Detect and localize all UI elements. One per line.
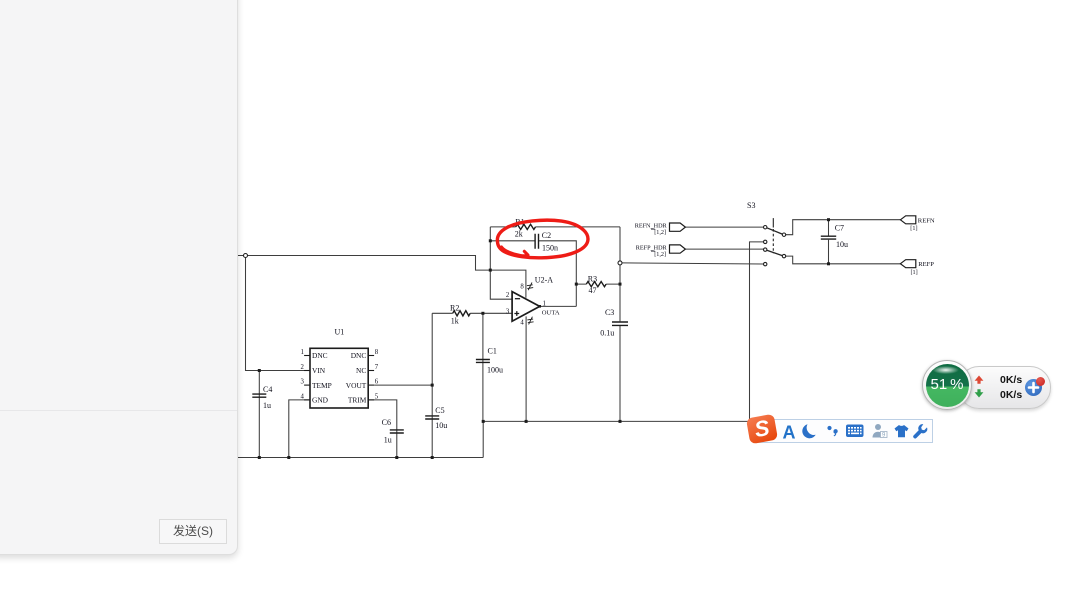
svg-text:NC: NC	[356, 366, 366, 375]
svg-text:TRIM: TRIM	[348, 396, 367, 405]
wire VOUT to node	[374, 384, 432, 386]
op-amp minus symbol	[515, 298, 520, 300]
down speed	[1000, 389, 1022, 401]
junction C3 mid rail	[619, 420, 622, 423]
wire C1 branch	[482, 313, 484, 421]
junction C6 rail	[395, 456, 398, 459]
svg-text:DNC: DNC	[312, 351, 328, 360]
wire bottom rail	[238, 457, 484, 459]
svg-text:C6: C6	[382, 418, 391, 427]
junction GND rail	[287, 456, 290, 459]
svg-text:10u: 10u	[435, 421, 447, 430]
red annotation kink	[502, 247, 529, 256]
svg-text:U2-A: U2-A	[535, 275, 553, 284]
junction C1 mid rail	[482, 420, 485, 423]
wire R2 leads	[432, 312, 483, 314]
svg-text:1: 1	[300, 349, 303, 356]
wire GND pin to bottom rail	[289, 400, 310, 458]
U1 pin3 stub	[304, 384, 310, 386]
resistor R1	[516, 224, 536, 229]
svg-text:47: 47	[589, 286, 597, 295]
svg-text:6: 6	[375, 379, 379, 386]
U1 pin7 stub	[368, 370, 374, 372]
junction VOUT node	[431, 384, 434, 387]
icon moon	[802, 424, 815, 438]
icon wrench	[913, 424, 927, 438]
junction R3 right node	[619, 283, 622, 286]
U1 pin4 stub	[304, 399, 310, 401]
svg-text:C4: C4	[263, 385, 272, 394]
junction opamp apex	[538, 305, 541, 308]
svg-text:1u: 1u	[384, 436, 392, 445]
green orb 51%	[922, 360, 972, 410]
up arrow	[974, 375, 984, 399]
icon person	[875, 424, 881, 430]
svg-text:C2: C2	[542, 231, 551, 240]
capacitor C6 plates	[390, 430, 404, 433]
wire switch B to REFN out	[786, 220, 901, 235]
op-amp U2-A triangle	[512, 292, 540, 322]
svg-text:4: 4	[520, 320, 524, 327]
U1 pin2 stub	[304, 370, 310, 372]
wire switch F to REFP out	[786, 256, 901, 264]
svg-text:GND: GND	[312, 396, 329, 405]
wire right vertical through C3	[619, 227, 621, 422]
icon shirt	[895, 425, 909, 437]
wire inverting feedback vertical	[490, 227, 512, 299]
wire REFP_HDR to switch	[685, 248, 763, 250]
wire switch throw C to mid rail	[750, 242, 764, 422]
connector flag REFP_HDR	[670, 245, 686, 253]
wire R2 vertical / C5 branch	[431, 313, 433, 457]
icon keyboard	[846, 425, 864, 438]
svg-text:OUTA: OUTA	[542, 309, 560, 316]
switch S3 top lever	[767, 228, 783, 234]
switch S3 throw F circle	[782, 254, 785, 257]
resistor R2	[453, 311, 471, 316]
op-amp pin4 power marker	[527, 317, 533, 325]
junction output node R3	[575, 283, 578, 286]
svg-text:DNC: DNC	[351, 351, 367, 360]
U1 pin1 stub	[304, 355, 310, 357]
speed widget pill	[958, 366, 1051, 409]
svg-text:C3: C3	[605, 308, 614, 317]
svg-text:3: 3	[506, 309, 510, 316]
plus cross	[1025, 379, 1042, 396]
capacitor C3 plates	[612, 322, 628, 325]
wire VIN drop	[246, 256, 311, 371]
wire mid rail	[483, 421, 749, 457]
svg-text:VIN: VIN	[312, 366, 326, 375]
capacitor C5 plates	[425, 416, 439, 419]
svg-text:10u: 10u	[836, 240, 848, 249]
svg-text:1: 1	[543, 300, 546, 307]
svg-text:2: 2	[300, 364, 304, 371]
svg-text:[1]: [1]	[911, 269, 918, 276]
sogou S logo	[745, 413, 777, 443]
send button	[159, 519, 227, 544]
svg-text:150n: 150n	[542, 244, 558, 253]
svg-text:U1: U1	[335, 328, 345, 337]
svg-text:2: 2	[506, 292, 510, 299]
svg-text:VOUT: VOUT	[346, 381, 367, 390]
svg-text:7: 7	[375, 364, 379, 371]
junction C2 left node	[489, 239, 492, 242]
up speed	[1000, 374, 1022, 386]
chat panel	[0, 0, 238, 555]
junction C5 rail	[431, 456, 434, 459]
svg-text:[1,2]: [1,2]	[654, 251, 666, 258]
wire REFN_HDR to switch	[685, 226, 763, 228]
switch S3 throw D circle	[764, 262, 767, 265]
panel divider	[0, 410, 237, 411]
svg-text:C7: C7	[835, 224, 844, 233]
svg-text:C1: C1	[488, 347, 497, 356]
svg-text:2k: 2k	[515, 229, 523, 238]
sogou toolbar	[753, 419, 933, 443]
junction C4 top	[258, 369, 261, 372]
wire node to switch throw D	[622, 263, 763, 264]
svg-text:4: 4	[300, 394, 304, 401]
wire C4 branch	[258, 371, 260, 458]
capacitor C1 plates	[476, 360, 490, 363]
U1 pin8 stub	[368, 355, 374, 357]
svg-text:REFN: REFN	[918, 217, 935, 224]
connector flag REFN_HDR	[670, 223, 686, 231]
wire TRIM to C6 to rail	[368, 400, 397, 458]
switch S3 dashed link	[772, 229, 774, 253]
svg-text:5: 5	[375, 394, 379, 401]
U1 pin5 stub	[368, 399, 374, 401]
red annotation ellipse around C2	[497, 220, 588, 258]
connector flag REFN	[900, 216, 915, 224]
svg-text:1k: 1k	[451, 316, 459, 325]
junction pin4 mid rail	[525, 420, 528, 423]
resistor R3	[586, 282, 606, 287]
junction C4 bottom	[258, 456, 261, 459]
overbar REFN_HDR [1,2]	[651, 229, 655, 251]
switch S3 throw B circle	[782, 233, 785, 236]
svg-text:TEMP: TEMP	[312, 381, 332, 390]
wire supply rail from panel to opamp pin8	[238, 256, 526, 298]
junction open circle REFP branch	[618, 261, 622, 265]
connector flag REFP	[900, 260, 915, 268]
red dot	[1036, 377, 1045, 386]
wire R1 top leads	[490, 226, 620, 228]
icon punctuation	[827, 426, 831, 430]
down arrow	[975, 389, 984, 397]
capacitor C2 plates	[535, 234, 538, 249]
switch S3 throw C circle	[764, 240, 767, 243]
plus button	[1025, 379, 1042, 396]
switch S3 top contact line	[772, 218, 774, 227]
svg-text:0.1u: 0.1u	[600, 329, 614, 338]
wire opamp pin4 down	[525, 316, 527, 421]
svg-text:8: 8	[375, 349, 379, 356]
svg-text:A: A	[783, 423, 796, 443]
svg-text:REFP: REFP	[918, 261, 934, 268]
svg-text:1u: 1u	[263, 401, 271, 410]
capacitor C7 plates	[821, 236, 836, 239]
wire plus input	[483, 312, 512, 314]
svg-text:R2: R2	[450, 303, 459, 312]
wire opamp output	[540, 305, 577, 307]
switch S3 bottom lever	[767, 250, 783, 255]
op-amp pin8 power marker	[527, 283, 533, 291]
wire R3 leads	[576, 283, 620, 285]
svg-text:R3: R3	[588, 275, 597, 284]
svg-text:C5: C5	[435, 406, 444, 415]
junction supply crossing	[489, 269, 492, 272]
svg-text:S3: S3	[747, 201, 755, 210]
junction C7 bottom	[827, 262, 830, 265]
junction C7 top	[827, 218, 830, 221]
switch S3 pole E circle	[764, 248, 767, 251]
junction plus input node	[481, 312, 484, 315]
svg-text:100u: 100u	[487, 366, 503, 375]
U1 pin6 stub	[368, 384, 374, 386]
svg-text:[1,2]: [1,2]	[654, 229, 666, 236]
svg-text:8: 8	[520, 284, 524, 291]
IC U1 body	[310, 348, 368, 408]
junction open circle supply	[244, 254, 248, 258]
wire C7 vertical	[828, 220, 830, 264]
wire C2 leads	[490, 241, 576, 307]
switch S3 pole A circle	[764, 226, 767, 229]
capacitor C4 plates	[252, 394, 266, 397]
svg-text:3: 3	[300, 379, 304, 386]
op-amp plus symbol	[514, 311, 519, 316]
svg-text:[1]: [1]	[910, 225, 917, 232]
